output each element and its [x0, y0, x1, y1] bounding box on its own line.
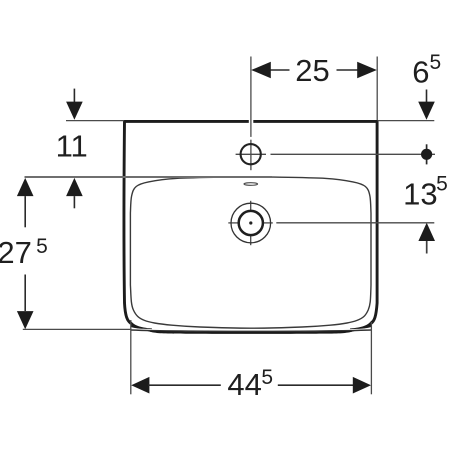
basin front rim inner line [131, 330, 372, 331]
dim 25: right extension line [376, 57, 378, 121]
dim 44.5: line right segment [278, 384, 355, 386]
drain center dot [249, 221, 252, 224]
svg-text:13: 13 [403, 177, 437, 212]
svg-text:5: 5 [261, 366, 273, 389]
dim 44.5: left extension line [130, 320, 132, 394]
svg-text:6: 6 [412, 54, 429, 89]
svg-text:27: 27 [0, 235, 32, 270]
tap hole circle [241, 144, 261, 164]
tap hole horizontal crosshair [236, 153, 266, 155]
drain outer circle [231, 203, 271, 243]
dim 27.5: top arrowhead [17, 178, 34, 196]
drain inner circle [239, 211, 263, 235]
dim 11: bottom arrow stem [73, 196, 75, 208]
dim 27.5: bottom arrowhead [17, 311, 34, 329]
dim 11: top arrow stem [73, 89, 75, 104]
tap hole vertical center line upper [250, 57, 252, 137]
dim 27.5: bottom extension line [23, 328, 132, 330]
basin front right wedge [350, 321, 372, 330]
overflow slot [244, 183, 258, 186]
basin front left wedge [130, 321, 152, 330]
dim 27.5: bottom arrow stem [24, 275, 26, 312]
bowl top reference line [25, 176, 273, 178]
drain horizontal crosshair left [228, 222, 238, 224]
svg-text:5: 5 [36, 235, 48, 258]
svg-text:5: 5 [436, 173, 448, 196]
drain vertical crosshair bottom [250, 235, 252, 245]
dim 25: line left segment [269, 69, 290, 71]
dim 13.5: arrowhead [418, 223, 435, 241]
dim 44.5: left arrowhead [131, 377, 149, 394]
reference dot [421, 149, 432, 160]
basin outer outline [124, 121, 377, 323]
dim 25: line right segment [337, 69, 360, 71]
basin front silhouette lens [147, 331, 355, 334]
drain horizontal crosshair right [264, 222, 273, 224]
svg-text:25: 25 [295, 53, 329, 88]
dim 6.5: arrowhead [418, 102, 435, 120]
dim 44.5: right extension line [370, 322, 372, 394]
dim 11: top arrowhead [66, 102, 83, 120]
dim 25: right arrowhead [357, 62, 377, 79]
tap axis line to dot [271, 153, 436, 155]
dim 44.5: line left segment [148, 384, 221, 386]
svg-text:11: 11 [56, 128, 88, 163]
top edge break at centerline [249, 119, 254, 124]
dim 11: extension line [66, 120, 124, 122]
svg-text:44: 44 [227, 367, 261, 402]
dim 11: bottom arrowhead [66, 178, 83, 196]
tap hole vertical center line lower [250, 140, 252, 171]
dim 44.5: right arrowhead [353, 377, 371, 394]
dim 13.5: extension line [276, 222, 434, 224]
svg-text:5: 5 [429, 51, 441, 74]
reference dot vertical tick [426, 144, 428, 164]
dim 6.5: extension line [378, 120, 435, 122]
dim 27.5: top arrow stem [24, 196, 26, 227]
dim 6.5: arrow stem [426, 90, 428, 104]
dim 13.5: arrow stem [426, 241, 428, 254]
basin bowl outline [130, 177, 371, 328]
drain vertical crosshair top [250, 201, 252, 211]
dim 25: left arrowhead [251, 62, 271, 79]
